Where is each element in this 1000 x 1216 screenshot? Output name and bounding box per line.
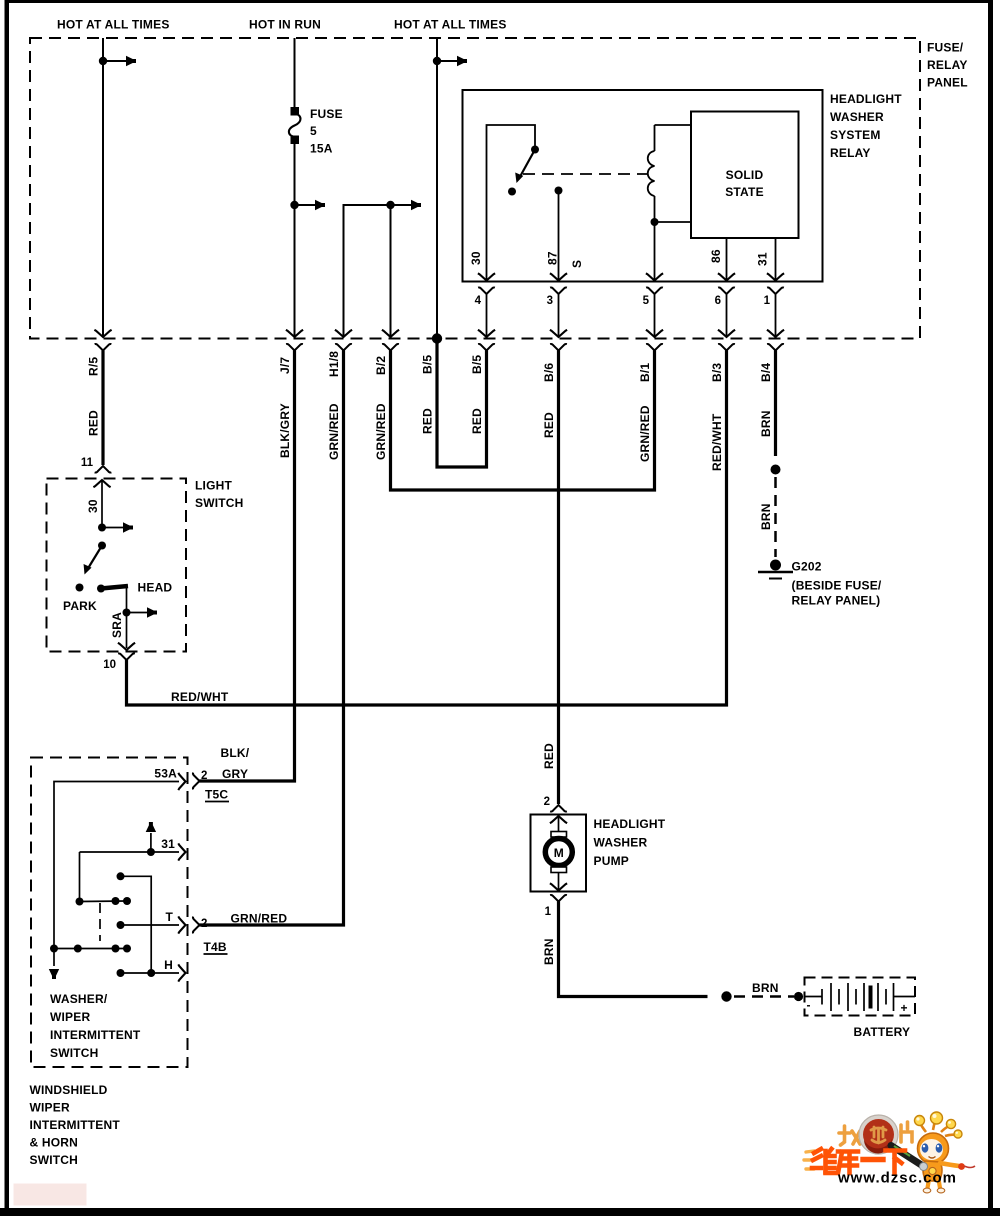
wire down from node 390 to panel bottom: [390, 205, 392, 336]
solid state module box: [691, 112, 799, 239]
svg-text:RELAY: RELAY: [830, 146, 871, 160]
contact pair upper: [80, 897, 132, 905]
pin 3 wire to panel edge: [550, 294, 567, 337]
arrowhead terminal 86 at relay edge: [718, 273, 735, 280]
wire H1/8 GRN/RED from panel to T4B: [200, 351, 344, 926]
wire from 31 down to lower contact: [79, 852, 81, 902]
relay terminal 31 internal wire: [775, 238, 777, 282]
svg-text:WINDSHIELD: WINDSHIELD: [30, 1083, 108, 1097]
svg-text:GRN/RED: GRN/RED: [327, 403, 341, 460]
svg-text:31: 31: [161, 837, 175, 851]
junction node upper (light switch): [98, 524, 106, 532]
pin 6 wire to panel edge: [718, 294, 735, 337]
svg-text:87: 87: [546, 251, 560, 265]
logo speed dashes: [804, 1151, 814, 1169]
up solid arrow from 31 wire: [146, 822, 156, 852]
connector wire B/6 below panel: [550, 344, 567, 351]
pin 1 wire to panel edge: [767, 294, 784, 337]
svg-text:3: 3: [547, 295, 553, 307]
mascot mitten: [958, 1163, 965, 1170]
mascot antenna ball glints: [916, 1114, 958, 1134]
svg-text:H1/8: H1/8: [327, 351, 341, 377]
connector wire B/1 below panel: [646, 344, 663, 351]
connector wire B/2 below panel: [382, 344, 399, 351]
svg-text:2: 2: [201, 770, 207, 782]
arrowhead terminal 87 at relay edge: [550, 273, 567, 280]
mascot head: [918, 1133, 949, 1164]
svg-text:1: 1: [545, 906, 552, 918]
fuse F5 15A: [289, 107, 301, 144]
svg-text:WASHER: WASHER: [830, 110, 884, 124]
pin 4 wire to panel edge: [478, 294, 495, 337]
svg-text:SRA: SRA: [110, 612, 124, 638]
svg-text:HEAD: HEAD: [138, 581, 173, 595]
switch pivot node (light switch): [98, 542, 106, 550]
svg-text:SWITCH: SWITCH: [195, 496, 244, 510]
wire B/4 BRN from pin 1 to ground: [774, 351, 777, 457]
svg-text:15A: 15A: [310, 142, 333, 156]
logo char wei: [812, 1149, 835, 1173]
mascot mouth: [929, 1157, 936, 1159]
connector T5C: [193, 773, 200, 790]
svg-text:2: 2: [544, 796, 550, 808]
arrowhead at panel bottom for hot-in-run wire: [286, 330, 303, 337]
svg-text:WASHER/: WASHER/: [50, 992, 108, 1006]
wire R/5 RED to light switch: [101, 351, 104, 466]
svg-text:INTERMITTENT: INTERMITTENT: [50, 1028, 141, 1042]
label BLK/GRY (T5C): [221, 746, 250, 781]
relay switch stationary contact node: [508, 188, 516, 196]
svg-text:30: 30: [469, 251, 483, 265]
svg-text:30: 30: [86, 499, 100, 513]
pink rectangle bottom left: [14, 1184, 87, 1206]
wire from T branch contact to H line: [121, 876, 152, 973]
outer border frame left bar: [5, 0, 10, 1212]
pump motor M: [545, 832, 572, 873]
arrowhead terminal S at relay edge: [646, 273, 663, 280]
svg-text:& HORN: & HORN: [30, 1136, 79, 1150]
svg-text:WIPER: WIPER: [50, 1010, 90, 1024]
svg-text:53A: 53A: [154, 767, 177, 781]
label FUSE 5 15A: [310, 107, 343, 156]
outer border frame top bar: [5, 0, 991, 3]
wire B/2 GRN/RED joining B/1: [391, 351, 655, 491]
branch arrow right at node 390: [391, 200, 422, 210]
PARK contact node: [76, 584, 84, 592]
svg-text:B/2: B/2: [374, 356, 388, 375]
connector pin 5 below relay: [646, 287, 663, 294]
mascot body: [923, 1161, 942, 1181]
svg-text:RED: RED: [542, 743, 556, 769]
logo char yi: [863, 1157, 883, 1162]
terminal 53A wire: [54, 773, 186, 966]
svg-text:S: S: [570, 260, 584, 268]
logo char ku: [838, 1152, 858, 1174]
svg-text:(BESIDE FUSE/: (BESIDE FUSE/: [792, 579, 882, 593]
svg-text:RED: RED: [421, 408, 435, 434]
wire hot-at-all-times right vertical: [436, 38, 438, 339]
wire BRN from pump to battery junction: [559, 902, 708, 997]
svg-text:HEADLIGHT: HEADLIGHT: [830, 92, 902, 106]
mascot right arm: [940, 1163, 959, 1166]
mascot shoes: [923, 1188, 945, 1193]
HEAD contact bar: [97, 585, 128, 593]
junction node on branch at x 390: [386, 201, 394, 209]
svg-text:J/7: J/7: [278, 357, 292, 374]
mascot eyes: [922, 1143, 943, 1152]
wire hot-at-all-times left vertical: [102, 38, 104, 336]
mascot badge: [929, 1167, 936, 1174]
svg-text:T: T: [165, 910, 173, 924]
svg-text:SWITCH: SWITCH: [50, 1046, 99, 1060]
svg-text:WIPER: WIPER: [30, 1101, 70, 1115]
relay terminal 87 contact node: [555, 187, 563, 195]
label LIGHT SWITCH: [195, 479, 244, 511]
svg-text:1: 1: [764, 295, 771, 307]
windshield wiper intermittent switch dashed box: [31, 758, 188, 1068]
logo magnifier handle: [891, 1146, 928, 1171]
svg-text:RELAY PANEL): RELAY PANEL): [792, 594, 881, 608]
relay terminal 5 internal wire: [654, 222, 656, 282]
svg-text:BRN: BRN: [542, 938, 556, 965]
coil bottom junction node: [651, 218, 659, 226]
svg-text:SWITCH: SWITCH: [30, 1153, 79, 1167]
battery terminal node: [794, 992, 803, 1001]
connector pin 6 below relay: [718, 287, 735, 294]
battery: [805, 978, 916, 1016]
logo char zhao (find): [839, 1126, 860, 1145]
svg-text:5: 5: [310, 124, 317, 138]
dashed BRN wire to ground: [774, 477, 777, 557]
label WASHER/WIPER INTERMITTENT SWITCH: [50, 992, 141, 1060]
label T4B underlined: [204, 940, 228, 954]
svg-text:BRN: BRN: [752, 981, 779, 995]
svg-text:B/3: B/3: [710, 363, 724, 382]
lower contact row: [50, 945, 131, 953]
label T5C underlined: [205, 788, 229, 802]
light switch blade: [79, 546, 102, 576]
mascot face: [920, 1139, 943, 1160]
svg-text:SYSTEM: SYSTEM: [830, 128, 881, 142]
svg-text:RED/WHT: RED/WHT: [171, 690, 229, 704]
mascot ribbon: [964, 1166, 975, 1168]
watermark logo dzsc.com: [804, 1112, 975, 1193]
headlight washer pump box: [531, 815, 587, 892]
junction node on left hot wire: [99, 57, 107, 65]
connector below pump terminal 1: [550, 895, 567, 902]
svg-text:STATE: STATE: [725, 185, 764, 199]
svg-text:4: 4: [475, 295, 482, 307]
branch arrow right (SRA node): [127, 607, 158, 617]
wire SRA down to box edge: [118, 613, 135, 651]
pump internal top arrow: [550, 816, 567, 832]
connector pin 4 below relay: [478, 287, 495, 294]
svg-text:B/6: B/6: [542, 363, 556, 382]
relay coil: [648, 125, 655, 222]
svg-text:RED: RED: [542, 412, 556, 438]
logo magnifier glass: [859, 1115, 898, 1154]
connector T4B: [193, 917, 200, 934]
svg-text:LIGHT: LIGHT: [195, 479, 232, 493]
svg-text:M: M: [554, 846, 564, 860]
svg-text:GRN/RED: GRN/RED: [231, 912, 288, 926]
label HEADLIGHT WASHER PUMP: [594, 817, 666, 868]
svg-text:PARK: PARK: [63, 599, 97, 613]
svg-text:SOLID: SOLID: [726, 168, 764, 182]
terminal 31 wire (wiper switch): [80, 843, 186, 860]
logo char xia: [886, 1151, 906, 1174]
terminal T wire: [117, 916, 186, 933]
connector into light switch terminal 11: [95, 466, 112, 473]
svg-text:B/5: B/5: [421, 355, 435, 374]
arrowhead at panel bottom for left hot wire: [94, 330, 111, 337]
connector wire H1/8 below panel: [335, 344, 352, 351]
wire L-branch to H1/8: [344, 205, 389, 336]
relay terminal 87 internal wire: [558, 191, 560, 282]
connector wire B/5 below panel: [478, 344, 495, 351]
svg-text:86: 86: [709, 249, 723, 263]
wire J/7 BLK/GRY from panel to T5C: [200, 351, 295, 782]
wire branch arrow right from left hot wire: [103, 56, 136, 66]
pin 5 wire to panel edge: [646, 294, 663, 337]
arrowhead at panel bottom of L-branch wire: [335, 330, 352, 337]
svg-text:10: 10: [103, 659, 116, 671]
arrowhead terminal 30 at relay edge: [478, 273, 495, 280]
svg-text:6: 6: [715, 295, 721, 307]
mascot antenna stalks: [920, 1121, 956, 1136]
mascot legs: [928, 1179, 941, 1188]
svg-text:FUSE: FUSE: [310, 107, 343, 121]
mechanical dashed link: [99, 903, 101, 941]
branch arrow right from hot-in-run node: [295, 200, 326, 210]
svg-text:HOT AT ALL TIMES: HOT AT ALL TIMES: [394, 18, 507, 32]
svg-text:-: -: [807, 998, 811, 1012]
connector wire J/7 below panel: [286, 344, 303, 351]
svg-text:PANEL: PANEL: [927, 76, 968, 90]
svg-text:BLK/GRY: BLK/GRY: [278, 403, 292, 458]
svg-text:GRY: GRY: [222, 767, 248, 781]
svg-text:H: H: [164, 958, 173, 972]
relay terminal 86 internal wire: [726, 238, 728, 282]
branch arrow right from right hot wire: [437, 56, 467, 66]
logo char pian (chip): [901, 1122, 912, 1142]
svg-text:RED: RED: [470, 408, 484, 434]
svg-text:GRN/RED: GRN/RED: [638, 405, 652, 462]
junction node on right hot wire: [433, 57, 441, 65]
connector below light switch: [118, 653, 135, 660]
headlight washer system relay box: [463, 90, 823, 282]
coil bottom wire to solid state module: [655, 221, 692, 223]
svg-text:BLK/: BLK/: [221, 746, 250, 760]
outer border frame right bar: [988, 0, 993, 1212]
svg-text:RED/WHT: RED/WHT: [710, 413, 724, 471]
svg-text:31: 31: [756, 252, 770, 266]
outer border frame bottom bar: [0, 1208, 1000, 1216]
light switch terminal 30 wire with up arrow: [93, 480, 110, 528]
connector above pump terminal 2: [550, 805, 567, 812]
light switch dashed box: [47, 479, 187, 652]
junction node on hot-in-run wire: [290, 201, 298, 209]
ground G202: [758, 560, 793, 579]
svg-text:BRN: BRN: [759, 410, 773, 437]
label G202: [792, 560, 882, 608]
svg-text:T5C: T5C: [205, 788, 228, 802]
svg-text:B/5: B/5: [470, 355, 484, 374]
relay terminal 30 internal wire: [487, 125, 536, 282]
svg-text:2: 2: [201, 918, 207, 930]
label FUSE/RELAY PANEL: [927, 41, 968, 90]
svg-text:FUSE/: FUSE/: [927, 41, 964, 55]
relay switch movable contact node: [531, 146, 539, 154]
label WINDSHIELD WIPER INTERMITTENT &amp; HORN SWITCH: [30, 1083, 121, 1167]
junction node on BRN ground wire: [771, 465, 781, 475]
junction node SRA: [123, 609, 131, 617]
junction node on BRN battery wire: [721, 991, 731, 1001]
svg-text:HEADLIGHT: HEADLIGHT: [594, 817, 666, 831]
junction node on 31 wire: [147, 848, 155, 856]
fuse/relay panel dashed box: [30, 38, 920, 339]
arrowhead at panel bottom for wire 390: [382, 330, 399, 337]
svg-text:www.dzsc.com: www.dzsc.com: [837, 1170, 957, 1187]
label HEADLIGHT WASHER SYSTEM RELAY: [830, 92, 902, 160]
svg-text:T4B: T4B: [204, 940, 227, 954]
svg-text:G202: G202: [792, 560, 822, 574]
relay switch blade: [511, 150, 535, 185]
svg-text:11: 11: [81, 457, 94, 469]
svg-text:B/1: B/1: [638, 363, 652, 382]
svg-text:BRN: BRN: [759, 503, 773, 530]
svg-text:WASHER: WASHER: [594, 836, 648, 850]
svg-text:HOT AT ALL TIMES: HOT AT ALL TIMES: [57, 18, 170, 32]
connector wire R/5 below panel: [95, 344, 112, 351]
arrowhead terminal 31 at relay edge: [767, 273, 784, 280]
svg-text:PUMP: PUMP: [594, 854, 629, 868]
svg-text:R/5: R/5: [87, 357, 101, 376]
svg-text:HOT IN RUN: HOT IN RUN: [249, 18, 321, 32]
pump internal bottom arrow: [550, 873, 567, 891]
contact node for T branch: [117, 872, 125, 880]
svg-text:BATTERY: BATTERY: [854, 1025, 911, 1039]
svg-text:RED: RED: [87, 410, 101, 436]
contact node mid left: [76, 898, 84, 906]
svg-text:RELAY: RELAY: [927, 58, 968, 72]
svg-text:5: 5: [643, 295, 650, 307]
connector wire B/3 below panel: [718, 344, 735, 351]
down arrowhead on 53A vertical: [49, 969, 59, 979]
connector pin 3 below relay: [550, 287, 567, 294]
svg-text:+: +: [901, 1001, 908, 1015]
wire B/5 RED U-turn to pin 4: [437, 339, 487, 468]
dashed BRN wire to battery: [734, 995, 794, 998]
wire B/3 RED/WHT from pin 6 to light switch: [127, 351, 727, 706]
wire from HEAD contact down: [126, 587, 128, 613]
relay actuating dashed link: [523, 173, 648, 175]
mascot antenna balls: [915, 1112, 963, 1138]
connector wire B/4 below panel: [767, 344, 784, 351]
wire B/6 RED from pin 3 to pump: [557, 351, 560, 805]
branch arrow right (light switch upper): [102, 522, 133, 532]
terminal H wire: [117, 964, 186, 981]
coil top wire to solid state module: [655, 124, 692, 126]
junction node where right hot wire meets panel bottom dashed line: [432, 333, 442, 343]
svg-text:GRN/RED: GRN/RED: [374, 403, 388, 460]
wire hot-in-run vertical: [294, 38, 296, 336]
connector pin 1 below relay: [767, 287, 784, 294]
label SOLID STATE: [725, 168, 764, 199]
svg-text:INTERMITTENT: INTERMITTENT: [30, 1118, 121, 1132]
svg-text:B/4: B/4: [759, 363, 773, 382]
